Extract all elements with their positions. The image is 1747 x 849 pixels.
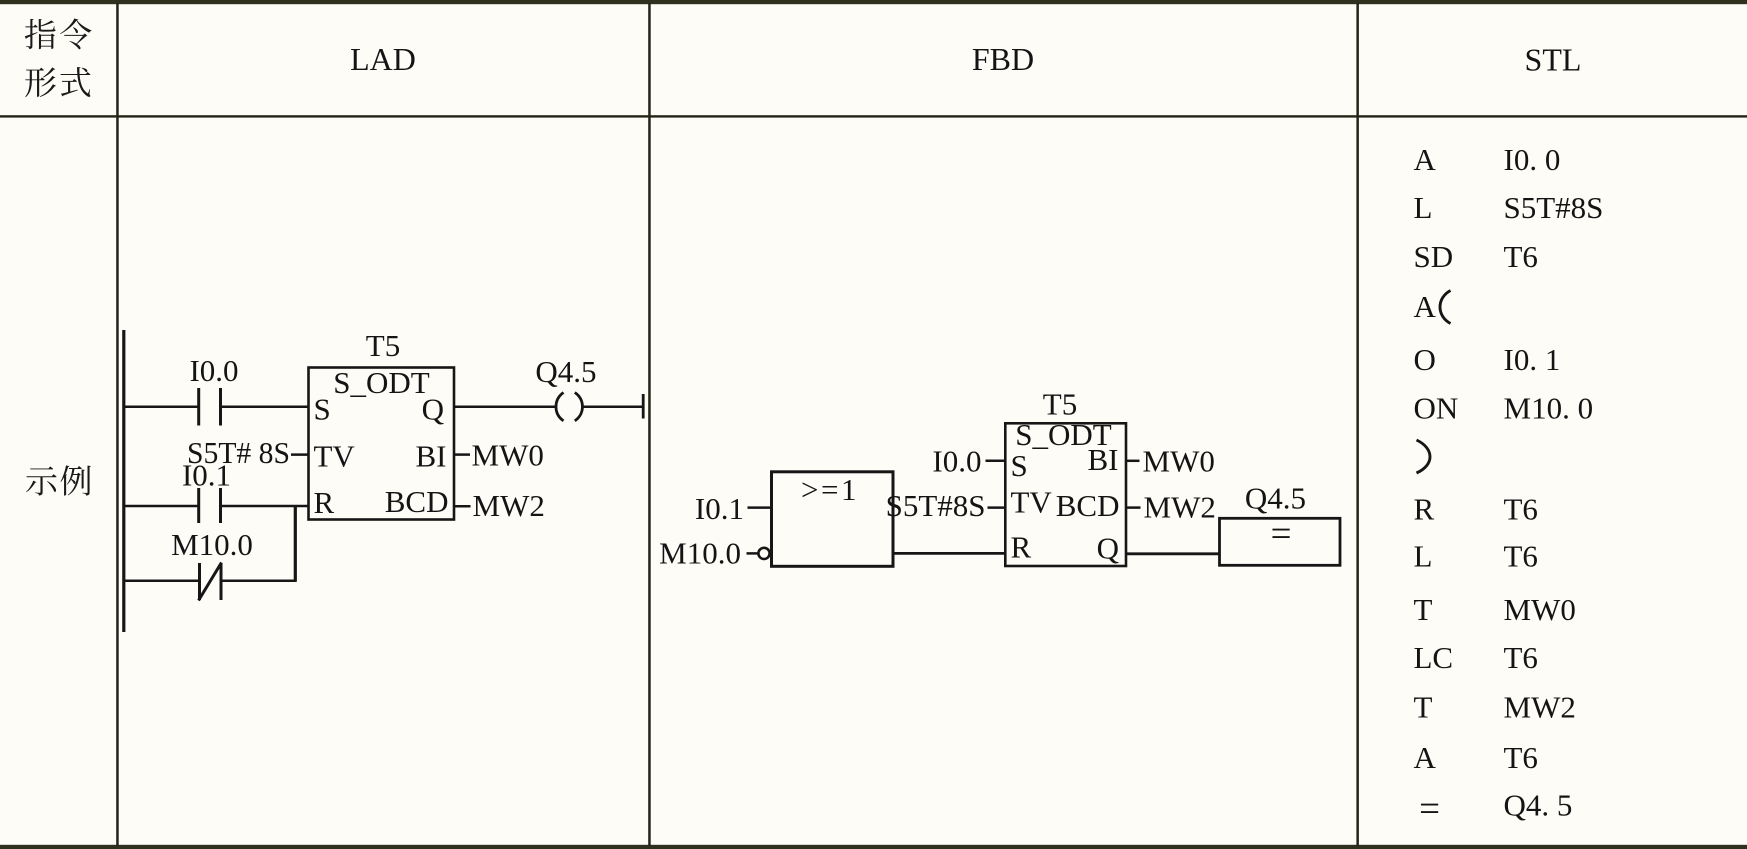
svg-text:I0. 0: I0. 0 xyxy=(1504,142,1561,177)
svg-text:LAD: LAD xyxy=(350,41,416,77)
svg-text:BCD: BCD xyxy=(385,484,449,519)
svg-text:=: = xyxy=(1419,789,1440,830)
svg-text:T6: T6 xyxy=(1504,539,1538,574)
svg-text:MW2: MW2 xyxy=(1144,490,1216,525)
svg-text:Q4.5: Q4.5 xyxy=(1245,481,1306,516)
svg-text:M10. 0: M10. 0 xyxy=(1504,391,1594,426)
svg-text:>=1: >=1 xyxy=(801,472,859,507)
svg-text:I0.0: I0.0 xyxy=(932,444,981,479)
svg-text:FBD: FBD xyxy=(972,41,1034,77)
svg-text:L: L xyxy=(1414,539,1433,574)
svg-text:L: L xyxy=(1414,190,1433,225)
svg-text:I0. 1: I0. 1 xyxy=(1504,342,1561,377)
svg-text:T5: T5 xyxy=(366,328,400,363)
svg-text:Q4.5: Q4.5 xyxy=(535,354,596,389)
svg-text:Q: Q xyxy=(1097,531,1119,566)
svg-text:A: A xyxy=(1414,289,1437,324)
svg-text:M10.0: M10.0 xyxy=(171,527,253,562)
svg-text:T: T xyxy=(1414,690,1433,725)
svg-text:R: R xyxy=(1011,530,1032,565)
svg-text:MW2: MW2 xyxy=(1504,690,1576,725)
svg-text:M10.0: M10.0 xyxy=(659,536,741,571)
svg-text:S: S xyxy=(314,392,331,427)
svg-text:BI: BI xyxy=(416,439,447,474)
svg-text:A: A xyxy=(1414,740,1437,775)
svg-text:TV: TV xyxy=(1011,485,1053,520)
svg-text:I0.0: I0.0 xyxy=(189,353,238,388)
svg-text:MW2: MW2 xyxy=(473,488,545,523)
svg-text:BCD: BCD xyxy=(1056,488,1120,523)
svg-text:T6: T6 xyxy=(1504,239,1538,274)
svg-text:BI: BI xyxy=(1088,442,1119,477)
svg-text:MW0: MW0 xyxy=(1504,592,1576,627)
svg-text:O: O xyxy=(1414,342,1436,377)
svg-text:T6: T6 xyxy=(1504,640,1538,675)
svg-text:S_ODT: S_ODT xyxy=(333,365,430,400)
svg-text:MW0: MW0 xyxy=(472,438,544,473)
svg-text:SD: SD xyxy=(1414,239,1454,274)
svg-text:LC: LC xyxy=(1414,640,1454,675)
svg-text:S5T#8S: S5T#8S xyxy=(1504,190,1604,225)
svg-text:I0.1: I0.1 xyxy=(695,491,744,526)
svg-text:TV: TV xyxy=(314,439,356,474)
svg-text:S5T# 8S: S5T# 8S xyxy=(187,435,290,470)
svg-text:MW0: MW0 xyxy=(1143,444,1215,479)
svg-text:S5T#8S: S5T#8S xyxy=(886,488,986,523)
svg-text:S: S xyxy=(1011,448,1028,483)
svg-text:Q: Q xyxy=(422,392,444,427)
svg-text:A: A xyxy=(1414,142,1437,177)
svg-text:=: = xyxy=(1271,513,1292,554)
svg-text:ON: ON xyxy=(1414,391,1459,426)
svg-text:Q4. 5: Q4. 5 xyxy=(1504,788,1573,823)
svg-text:R: R xyxy=(1414,492,1435,527)
svg-text:T: T xyxy=(1414,592,1433,627)
svg-text:T6: T6 xyxy=(1504,740,1538,775)
svg-text:R: R xyxy=(314,485,335,520)
svg-text:STL: STL xyxy=(1525,42,1582,78)
svg-text:T6: T6 xyxy=(1504,492,1538,527)
